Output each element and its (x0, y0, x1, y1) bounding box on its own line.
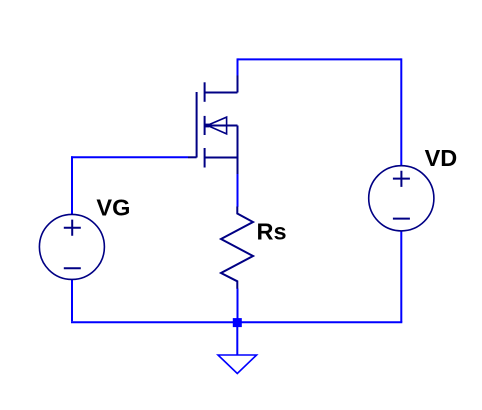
voltage source VD (369, 166, 434, 231)
svg-text:VG: VG (96, 194, 130, 220)
body channel stub (204, 116, 206, 135)
VG minus sign (64, 267, 81, 269)
wire: top rail from drain to VD (238, 58, 402, 60)
svg-text:Rs: Rs (257, 219, 287, 245)
VG circle (39, 214, 104, 279)
VD minus sign (393, 218, 410, 220)
body-source tie (237, 126, 239, 158)
drain channel stub (204, 82, 206, 102)
wire: gate rail (71, 156, 188, 158)
gate lead (188, 156, 197, 158)
resistor Rs zigzag (221, 207, 253, 289)
body lead (206, 125, 238, 127)
source lead (205, 157, 238, 159)
source channel stub (204, 148, 206, 168)
wire: source to resistor (237, 174, 239, 207)
VD plus sign (393, 171, 410, 187)
VD circle (369, 166, 434, 231)
VG plus sign (64, 220, 81, 236)
wire: VD bottom to bottom rail (400, 231, 402, 323)
ground (218, 355, 257, 374)
drain pin lead (237, 76, 239, 93)
svg-text:VD: VD (425, 145, 458, 171)
transistor M1 (NMOS) (188, 76, 238, 175)
wire: VG top (71, 156, 73, 214)
body arrow triangle (207, 117, 226, 134)
source pin lead (237, 158, 239, 175)
drain lead (205, 92, 238, 94)
wire: VD top drop (400, 58, 402, 166)
wire: VG bottom (71, 279, 73, 321)
voltage source VG (39, 214, 104, 279)
body arrow tip dot (206, 124, 210, 128)
wire: drain drop to MOSFET (237, 58, 239, 75)
wire: junction to ground (236, 322, 238, 354)
node junction square (233, 318, 242, 327)
wire: resistor to junction (237, 289, 239, 323)
gate bar (196, 92, 198, 158)
wire: bottom rail (71, 321, 402, 323)
